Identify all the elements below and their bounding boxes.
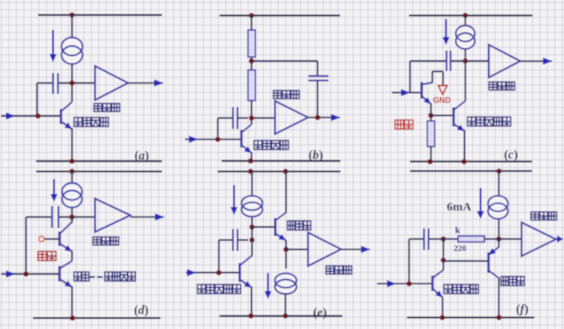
- current direction arrow I1 (e): [231, 185, 238, 215]
- svg-text:(a): (a): [135, 149, 150, 163]
- wire: (e) junction to amplifier input: [286, 248, 308, 250]
- wire: (e) node wire through capacitor C1: [219, 239, 248, 241]
- capacitor C1 (b) input: [233, 107, 238, 129]
- node: (d) supply rail junction: [69, 169, 74, 174]
- svg-text:(b): (b): [309, 148, 324, 162]
- wire: (c) Q2 emitter to ground rail: [464, 130, 466, 162]
- svg-text:(d): (d): [134, 303, 149, 317]
- node: (b) input junction: [215, 137, 220, 142]
- wire: (f) node to Q2 emitter: [498, 239, 500, 248]
- label: (c) 电压放大器 (voltage amplifier): [468, 117, 511, 126]
- wire: (d) ground rail: [33, 317, 161, 319]
- label: (a) 输出级 (output stage): [94, 104, 120, 112]
- wire: circuit (d) positive supply rail: [36, 170, 162, 172]
- transistor Q1 (a) common-emitter: [61, 102, 72, 129]
- node: (c) ground rail junction R1: [428, 159, 433, 164]
- wire: (a) ground rail: [36, 160, 162, 162]
- transistor Q2 (e) buffer: [275, 213, 286, 241]
- wire: (c) Q1 collector step to GND symbol: [432, 71, 443, 85]
- wire: (e) vertical through current source I1: [251, 171, 253, 240]
- capacitor C1 (d): [52, 206, 59, 228]
- wire: (e) I2 to ground rail: [284, 294, 286, 316]
- node: (d) input branch junction: [23, 271, 28, 276]
- wire: (c) output with arrow: [520, 58, 552, 65]
- current source I2 (e): [275, 273, 297, 294]
- current source I1 (a): [62, 38, 83, 65]
- label: (d) 共射--共基放大 (common emitter - common base amp): [74, 272, 135, 281]
- resistor R1 (f) horizontal: [458, 236, 484, 242]
- svg-text:(c): (c): [504, 148, 518, 162]
- wire: (f) signal input with arrow: [377, 280, 433, 287]
- node: (f) output node junction: [496, 236, 501, 241]
- wire: (f) vertical through current source to node: [498, 171, 500, 239]
- wire: (f) Q1 collector vertical to Q2 base junction: [442, 239, 444, 271]
- node: (f) supply rail junction: [496, 169, 501, 174]
- wire: circuit (a) positive supply rail: [38, 14, 162, 16]
- wire: (c) R1 to ground rail: [430, 147, 432, 162]
- wire: (f) R1 left lead: [443, 238, 458, 240]
- resistor R2 (b): [248, 70, 255, 101]
- transistor Q2 (c) common-emitter: [454, 101, 466, 131]
- wire: (b) input capacitor wire: [218, 117, 233, 119]
- current direction arrow (c): [443, 19, 450, 45]
- resistor R1 (b): [248, 30, 255, 57]
- op-amp A1 (c) output stage: [489, 45, 520, 78]
- label: (e) 缓冲器 (buffer): [288, 221, 311, 230]
- node: (f) ground rail junction Q2: [496, 315, 501, 320]
- svg-text:6mA: 6mA: [447, 200, 472, 214]
- capacitor C1 (a): [53, 73, 58, 94]
- current source I1 (e): [242, 196, 263, 217]
- wire: (c) junction to Q2 base: [431, 114, 454, 116]
- wire: (c) Q2 collector vertical: [464, 61, 466, 101]
- wire: (d) signal input with arrow: [1, 270, 60, 277]
- wire: (d) vertical through current source to node: [71, 171, 73, 217]
- wire: (e) Q1 collector vertical: [251, 240, 253, 256]
- svg-text:k: k: [455, 226, 461, 236]
- node: (e) supply rail junction 2: [283, 169, 288, 174]
- label: (d) 输出级 (output stage): [93, 237, 119, 245]
- capacitor C1 (c): [447, 51, 451, 72]
- node: (f) R1 left junction: [441, 236, 446, 241]
- wire: (d) Q1 base bias stub: [45, 238, 60, 240]
- label: (c) 输出级 (output stage): [489, 82, 515, 90]
- wire: (f) ground rail: [407, 317, 534, 319]
- wire: (c) Q1 emitter vertical to resistor: [430, 103, 432, 121]
- node: (e) ground rail junction I2: [283, 313, 288, 318]
- node: (a) ground rail junction: [69, 159, 74, 164]
- svg-text:(e): (e): [313, 306, 327, 320]
- label: (e) 电压放大器 (voltage amplifier): [198, 285, 241, 294]
- wire: (e) Q2 collector to supply rail: [285, 171, 287, 213]
- capacitor C1 (e): [233, 229, 238, 251]
- wire: (e) branch to Q2 base: [252, 226, 275, 228]
- transistor Q1 (b) common-emitter: [241, 125, 251, 154]
- svg-text:220: 220: [454, 243, 467, 253]
- wire: (e) Q2 emitter vertical to current source I2: [285, 240, 287, 269]
- node: (a) input branch junction: [35, 113, 40, 118]
- op-amp A1 (a) output stage: [95, 66, 128, 100]
- wire: (e) ground rail: [220, 315, 343, 317]
- wire: (d) left branch down to input: [25, 217, 27, 274]
- transistor Q2 (f) buffer PNP: [489, 247, 499, 278]
- node: (c) top node junction: [463, 58, 468, 63]
- capacitor C1 (f): [424, 229, 429, 251]
- label: (f) 电压放大 (voltage amplifier): [444, 285, 478, 294]
- wire: (a) signal input with arrow: [1, 112, 61, 119]
- node: (f) Q2 base junction: [441, 258, 446, 263]
- wire: (f) output with arrow: [556, 235, 563, 242]
- wire: (b) collector node to amplifier input: [252, 117, 276, 119]
- wire: (f) node wire through capacitor C1: [409, 238, 443, 240]
- wire: (f) R1 right lead to node: [484, 238, 498, 240]
- op-amp A1 (b) output stage: [275, 101, 308, 134]
- label: (b) 电压放大 (voltage amplifier): [254, 141, 288, 150]
- wire: (a) output with arrow: [128, 79, 163, 86]
- node: (b) supply rail junction: [249, 13, 254, 18]
- wire: (b) input branch vertical: [217, 118, 219, 139]
- wire: circuit (b) positive supply rail: [220, 15, 341, 17]
- wire: (c) ground rail: [410, 161, 532, 163]
- wire: circuit (f) positive supply rail: [410, 170, 532, 172]
- wire: (b) ground rail: [222, 160, 341, 162]
- wire: (b) feedback branch to capacitor C2: [252, 61, 318, 75]
- op-amp A1 (f) output stage: [522, 223, 556, 257]
- transistor Q1 (f) common-emitter: [433, 270, 444, 298]
- wire: (e) Q1 emitter to ground rail: [251, 287, 253, 316]
- label: (a) 电压放大 (voltage amplifier): [74, 118, 108, 127]
- wire: (a) node wire from capacitor to amplifier input: [37, 82, 95, 84]
- current direction arrow I2 (e): [265, 273, 272, 299]
- label: (d) 偏置 (bias): [38, 252, 56, 261]
- ground GND symbol (c): [438, 86, 447, 95]
- transistor Q1 (d) common-base: [60, 222, 73, 252]
- current direction arrow (a): [50, 30, 57, 62]
- wire: (e) signal input with arrow: [186, 269, 240, 276]
- wire: (f) Q2 collector to ground rail: [498, 278, 500, 318]
- transistor Q2 (d) common-emitter: [60, 261, 73, 287]
- wire: (e) input branch vertical: [218, 240, 220, 273]
- wire: (d) node wire from capacitor to amplifier input: [26, 216, 95, 218]
- node: (e) ground rail junction Q1: [248, 313, 253, 318]
- transistor Q1 (e) common-emitter: [240, 256, 252, 288]
- node: (e) supply rail junction 1: [248, 169, 253, 174]
- current direction arrow (f): [477, 188, 484, 219]
- wire: (f) left branch down to input: [408, 239, 410, 284]
- node: (b) R1/R2 junction: [249, 58, 254, 63]
- wire: (b) output with arrow: [308, 114, 340, 121]
- wire: (d) Q1 emitter to Q2 collector: [71, 251, 73, 262]
- node: (a) supply rail junction: [69, 12, 74, 17]
- wire: (a) main vertical from rail through current source to Q1 collector: [71, 15, 73, 102]
- node: (b) collector node junction: [249, 115, 254, 120]
- node: (a) collector node junction: [69, 80, 74, 85]
- svg-text:(f): (f): [516, 302, 529, 316]
- label: (c) 射随 (emitter follower): [395, 120, 413, 129]
- wire: (a) branch from input down-wire to capacitor: [36, 83, 38, 116]
- node: (c) ground rail junction Q2: [462, 159, 467, 164]
- node: (c) supply rail junction: [463, 13, 468, 18]
- terminal: (d) bias input open circle: [39, 236, 44, 241]
- wire: (c) left branch down to input: [409, 61, 411, 93]
- label: (e) 输出级 (output stage): [326, 266, 352, 274]
- wire: (d) Q1 collector vertical: [71, 217, 73, 223]
- node: (b) ground rail junction: [248, 158, 253, 163]
- svg-text:GND: GND: [433, 96, 451, 105]
- wire: circuit (e) positive supply rail: [218, 170, 341, 172]
- node: (b) output/feedback junction: [315, 115, 320, 120]
- wire: (b) C2 to output node: [317, 81, 319, 118]
- node: (d) ground rail junction: [70, 315, 75, 320]
- wire: (c) vertical through current source to node: [464, 15, 466, 61]
- label: (f) 缓冲器 (buffer): [501, 277, 524, 286]
- wire: circuit (c) positive supply rail: [409, 14, 533, 16]
- node: (c) emitter/base junction: [428, 113, 433, 118]
- wire: (b) vertical rail to R1: [251, 16, 253, 31]
- node: (d) collector node junction: [69, 214, 74, 219]
- wire: (a) Q1 emitter to ground rail: [71, 128, 73, 161]
- transistor Q1 (c) emitter follower: [422, 82, 433, 104]
- wire: (f) node to amplifier input: [499, 238, 522, 240]
- op-amp A1 (e) output stage: [308, 233, 341, 267]
- wire: (f) junction to Q2 base: [443, 260, 488, 262]
- current direction arrow (d): [51, 179, 58, 202]
- wire: (b) Q1 emitter to ground rail: [251, 152, 253, 161]
- resistor R1 (c): [427, 121, 434, 147]
- node: (e) emitter/amp junction: [283, 247, 288, 252]
- wire: (c) node wire through capacitor: [410, 60, 489, 62]
- label: (f) 输出级 (output stage): [531, 212, 557, 220]
- wire: (b) R1 to R2 segment: [251, 57, 253, 70]
- node: (e) input junction: [216, 270, 221, 275]
- label: (b) 输出级 (output stage): [274, 91, 300, 99]
- node: (e) Q2 base branch junction: [249, 224, 254, 229]
- wire: (e) output with arrow: [341, 246, 370, 253]
- wire: (b) R2 bottom to collector node: [251, 101, 253, 125]
- node: (e) collector node junction: [249, 237, 254, 242]
- wire: (d) output with arrow: [130, 213, 164, 220]
- wire: (f) Q1 emitter to ground rail: [442, 297, 444, 318]
- current source I1 (d): [62, 183, 82, 208]
- wire: (c) signal input with arrow: [392, 89, 422, 96]
- current source I1 (f): [488, 196, 508, 219]
- wire: (b) signal input with arrow: [185, 136, 241, 143]
- node: (f) ground rail junction Q1: [440, 315, 445, 320]
- current source I1 (c): [456, 26, 475, 50]
- wire: (b) C1 right plate to node: [238, 117, 249, 119]
- node: (f) input junction: [407, 281, 412, 286]
- op-amp A1 (d) output stage: [95, 199, 130, 233]
- capacitor C2 (b) feedback: [309, 76, 329, 81]
- wire: (d) Q2 emitter to ground rail: [71, 286, 73, 318]
